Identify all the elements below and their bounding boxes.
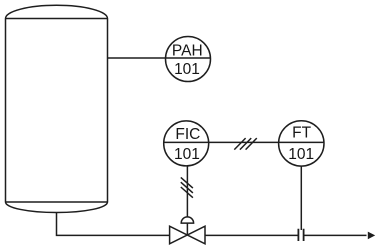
svg-text:PAH: PAH [172, 43, 203, 60]
svg-text:FIC: FIC [175, 126, 200, 143]
svg-text:101: 101 [288, 146, 314, 163]
svg-text:101: 101 [174, 61, 200, 78]
svg-text:101: 101 [174, 146, 200, 163]
svg-text:FT: FT [292, 125, 311, 142]
